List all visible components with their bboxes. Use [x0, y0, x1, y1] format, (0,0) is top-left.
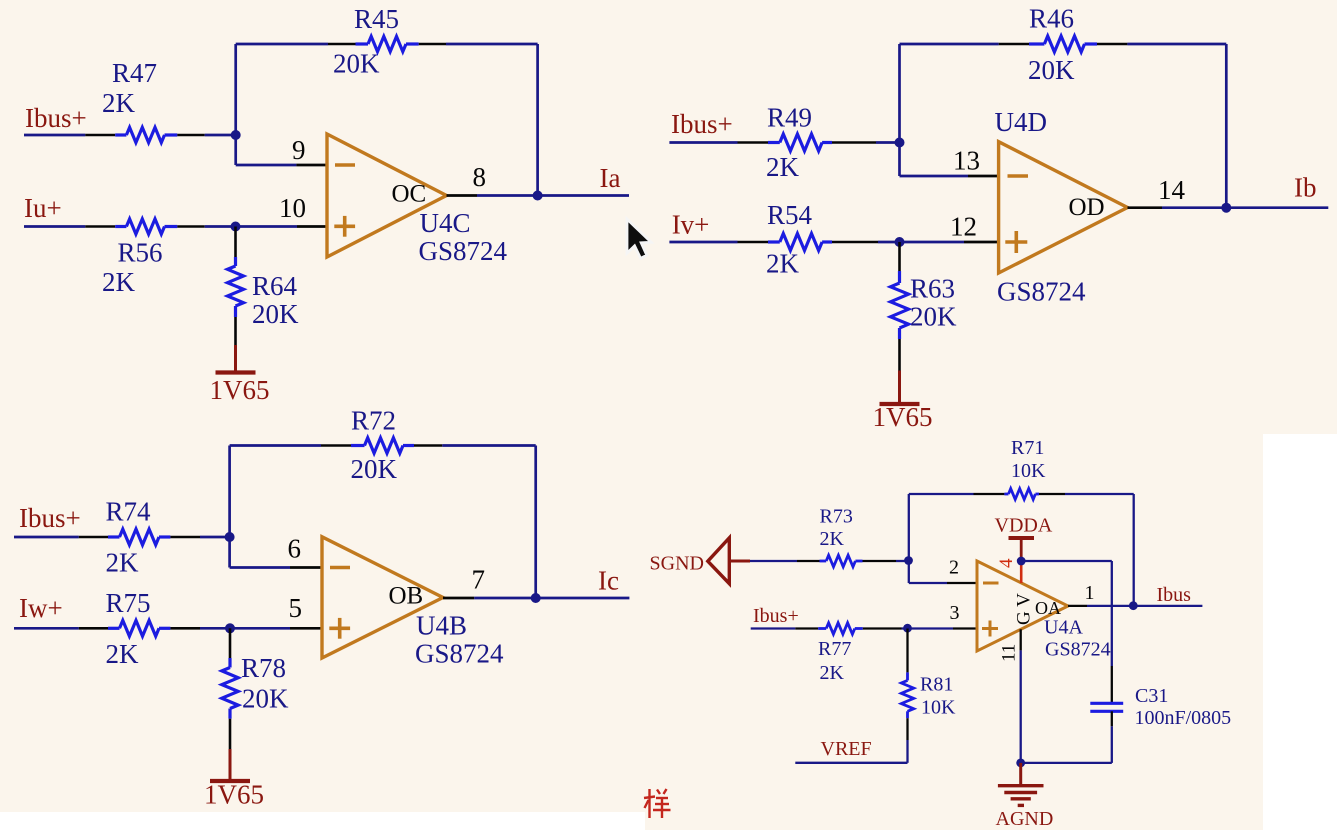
resistor R54 2K: [738, 241, 769, 244]
wire inverting input pin 9 U4C: [236, 164, 297, 167]
node junction R75/R78 U4B: [225, 623, 235, 633]
svg-text:4: 4: [996, 558, 1017, 568]
power port VDDA bar: [1009, 536, 1035, 540]
svg-text:R47: R47: [112, 58, 157, 88]
resistor R73 2K: [797, 560, 820, 562]
wire feedback right vertical U4B: [534, 446, 537, 599]
svg-text:12: 12: [950, 212, 977, 242]
svg-text:2K: 2K: [106, 548, 140, 578]
op-amp U4D GS8724: [999, 142, 1128, 273]
node output junction U4D: [1221, 203, 1231, 213]
wire feedback top U4D: [900, 43, 999, 46]
wire feedback top U4C: [236, 43, 328, 46]
resistor R74 2K: [79, 536, 108, 539]
svg-text:Ibus+: Ibus+: [19, 503, 81, 533]
wire output pin 7 U4B: [443, 597, 474, 600]
svg-text:R73: R73: [820, 506, 853, 528]
svg-text:20K: 20K: [1028, 55, 1075, 85]
svg-text:9: 9: [292, 135, 306, 165]
svg-text:2K: 2K: [106, 639, 140, 669]
wire output pin 8 U4C: [447, 194, 478, 197]
resistor R56 2K: [85, 225, 115, 228]
svg-text:SGND: SGND: [650, 553, 704, 575]
wire feedback left vertical U4A: [908, 494, 910, 583]
svg-text:R77: R77: [818, 638, 851, 660]
node junction R54/R63 U4D: [895, 237, 905, 247]
node junction VDDA pin4: [1017, 557, 1026, 566]
svg-text:R64: R64: [252, 271, 298, 301]
wire R81 to VREF: [906, 740, 908, 763]
wire feedback left vertical U4C: [234, 44, 237, 165]
svg-text:AGND: AGND: [996, 808, 1054, 830]
svg-text:1V65: 1V65: [873, 402, 933, 432]
svg-text:GS8724: GS8724: [415, 639, 504, 669]
wire net Ibus+ row U4D: [669, 141, 737, 144]
svg-text:Ibus+: Ibus+: [671, 109, 733, 139]
resistor R45 20K: [328, 43, 356, 46]
non-inverting input plus symbol: [1005, 240, 1027, 244]
power port 1V65: [898, 371, 901, 405]
wire pin 10 U4C: [236, 225, 298, 228]
svg-text:OC: OC: [392, 181, 427, 208]
wire non-inverting input Iw+ row U4B: [14, 627, 79, 630]
non-inverting input plus symbol: [329, 626, 350, 630]
node junction R56/R64 U4C: [231, 222, 241, 232]
svg-text:R46: R46: [1029, 4, 1074, 34]
wire pin 5 U4B: [230, 627, 290, 630]
resistor R49 2K: [738, 141, 769, 144]
resistor R75 2K: [79, 627, 108, 630]
svg-text:10: 10: [279, 193, 306, 223]
svg-text:Iu+: Iu+: [24, 193, 62, 223]
wire net VREF: [795, 762, 907, 764]
svg-text:11: 11: [999, 644, 1020, 662]
svg-text:G V: G V: [1014, 593, 1035, 625]
svg-text:13: 13: [953, 146, 980, 176]
node output junction U4C: [533, 191, 543, 201]
wire pin 12 U4D: [900, 241, 965, 244]
svg-text:Iw+: Iw+: [19, 593, 63, 623]
inverting input minus symbol: [983, 582, 999, 585]
wire non-inverting input Iv+ row U4D: [669, 241, 737, 244]
node junction R77/R81 U4A: [903, 624, 912, 633]
svg-text:VREF: VREF: [821, 738, 872, 760]
resistor R63 20K: [898, 242, 901, 271]
svg-text:Ib: Ib: [1294, 173, 1317, 203]
svg-text:1V65: 1V65: [204, 780, 264, 810]
node junction R73/feedback U4A: [904, 556, 913, 565]
svg-text:2K: 2K: [766, 248, 800, 278]
svg-text:3: 3: [950, 602, 960, 624]
svg-text:2K: 2K: [766, 152, 800, 182]
svg-text:OD: OD: [1069, 194, 1105, 221]
svg-text:14: 14: [1158, 175, 1186, 205]
svg-text:R74: R74: [106, 497, 152, 527]
wire net Ibus+ row U4B: [14, 536, 79, 539]
svg-text:2K: 2K: [820, 528, 845, 550]
wire output pin 1 U4A: [1068, 605, 1087, 607]
svg-text:20K: 20K: [252, 299, 299, 329]
svg-text:Ibus+: Ibus+: [753, 605, 799, 627]
mouse cursor: [627, 219, 651, 258]
svg-text:2K: 2K: [102, 88, 136, 118]
svg-text:Ia: Ia: [600, 163, 621, 193]
resistor R72 20K: [321, 444, 351, 447]
resistor R81 10K: [906, 629, 908, 673]
svg-text:R71: R71: [1011, 437, 1044, 459]
svg-text:R49: R49: [767, 103, 812, 133]
wire non-inverting input Iu+ row U4C: [24, 225, 85, 228]
wire VDDA to C31 vertical: [1111, 561, 1113, 666]
svg-text:U4C: U4C: [420, 208, 471, 238]
svg-text:U4B: U4B: [416, 611, 467, 641]
svg-text:R75: R75: [106, 588, 151, 618]
wire output pin 14 U4D: [1128, 206, 1163, 209]
svg-text:2K: 2K: [820, 662, 845, 684]
svg-text:5: 5: [289, 593, 303, 623]
power port 1V65: [229, 749, 232, 781]
svg-text:Ibus+: Ibus+: [25, 103, 87, 133]
svg-text:100nF/0805: 100nF/0805: [1135, 707, 1232, 729]
power port 1V65: [234, 345, 237, 373]
op-amp U4C GS8724: [327, 134, 447, 257]
svg-text:Iv+: Iv+: [672, 210, 710, 240]
svg-text:Ic: Ic: [598, 566, 619, 596]
resistor R64 20K: [234, 227, 237, 258]
svg-text:20K: 20K: [910, 302, 957, 332]
wire VDDA to C31 top horizontal: [1021, 560, 1112, 562]
svg-text:2: 2: [949, 557, 959, 579]
node junction R74/feedback U4B: [225, 532, 235, 542]
wire inverting input pin 6 U4B: [230, 566, 290, 569]
svg-text:20K: 20K: [351, 454, 398, 484]
node junction R47/feedback U4C: [231, 130, 241, 140]
wire pin 3 U4A: [908, 627, 954, 629]
svg-text:GS8724: GS8724: [1045, 639, 1111, 661]
svg-text:C31: C31: [1135, 685, 1168, 707]
svg-text:20K: 20K: [242, 684, 289, 714]
svg-text:GS8724: GS8724: [997, 277, 1086, 307]
svg-text:10K: 10K: [921, 697, 956, 719]
wire inverting input pin 2 U4A: [909, 582, 947, 584]
node output junction U4B: [531, 593, 541, 603]
node junction R49/feedback U4D: [895, 138, 905, 148]
svg-text:8: 8: [473, 162, 487, 192]
wire pin 11 vertical: [1020, 629, 1022, 650]
wire inverting input pin 13 U4D: [900, 175, 969, 178]
wire R47 to junction: [205, 134, 236, 137]
wire net Ibus+ row U4C: [24, 134, 85, 137]
resistor R78 20K: [229, 628, 232, 658]
resistor R46 20K: [999, 43, 1029, 46]
wire feedback top U4B: [230, 444, 321, 447]
svg-text:R81: R81: [920, 674, 953, 696]
svg-text:OA: OA: [1035, 598, 1061, 618]
white app background bottom-left strip: [0, 812, 645, 830]
inverting input minus symbol: [335, 163, 355, 167]
capacitor C31 100nF/0805: [1090, 702, 1123, 705]
ground symbol AGND: [1019, 763, 1022, 786]
svg-text:R72: R72: [351, 406, 396, 436]
svg-text:7: 7: [472, 565, 486, 595]
white app background right strip: [1263, 434, 1337, 830]
op-amp U4A GS8724: [977, 561, 1068, 651]
red chinese watermark character: [644, 789, 671, 818]
non-inverting input plus symbol: [334, 225, 355, 229]
pin 4 red wire VDDA: [1020, 561, 1023, 583]
inverting input minus symbol: [330, 566, 350, 570]
svg-text:1: 1: [1085, 582, 1095, 604]
wire net Ibus+ row U4A: [751, 627, 796, 629]
svg-text:1V65: 1V65: [210, 375, 270, 405]
svg-text:VDDA: VDDA: [995, 515, 1053, 537]
non-inverting input plus symbol: [982, 627, 998, 630]
svg-text:U4D: U4D: [995, 107, 1048, 137]
wire feedback right vertical U4C: [536, 44, 539, 196]
inverting input minus symbol: [1008, 174, 1029, 178]
wire feedback right vertical U4A: [1133, 494, 1135, 606]
svg-text:2K: 2K: [102, 267, 136, 297]
svg-text:R54: R54: [767, 200, 813, 230]
resistor R71 10K: [974, 493, 1005, 495]
op-amp U4B GS8724: [322, 537, 443, 658]
wire feedback right vertical U4D: [1225, 44, 1228, 208]
node output junction U4A: [1129, 601, 1138, 610]
svg-text:10K: 10K: [1011, 460, 1046, 482]
svg-text:R78: R78: [241, 653, 286, 683]
svg-text:OB: OB: [389, 583, 424, 610]
wire feedback top U4A: [909, 493, 974, 495]
wire feedback left vertical U4B: [228, 446, 231, 568]
power port SGND arrow: [708, 538, 730, 584]
svg-text:Ibus: Ibus: [1157, 584, 1192, 606]
svg-text:U4A: U4A: [1044, 617, 1083, 639]
resistor R47 2K: [85, 134, 115, 137]
svg-text:R56: R56: [118, 238, 163, 268]
wire feedback left vertical U4D: [898, 44, 901, 176]
node junction AGND: [1016, 759, 1025, 768]
svg-text:GS8724: GS8724: [419, 236, 508, 266]
svg-text:R45: R45: [354, 4, 399, 34]
svg-text:20K: 20K: [333, 49, 380, 79]
wire C31 bottom to AGND: [1021, 762, 1112, 764]
svg-text:R63: R63: [910, 274, 955, 304]
resistor R77 2K: [795, 627, 818, 629]
wire SGND to R73: [750, 560, 797, 562]
svg-text:6: 6: [288, 534, 302, 564]
